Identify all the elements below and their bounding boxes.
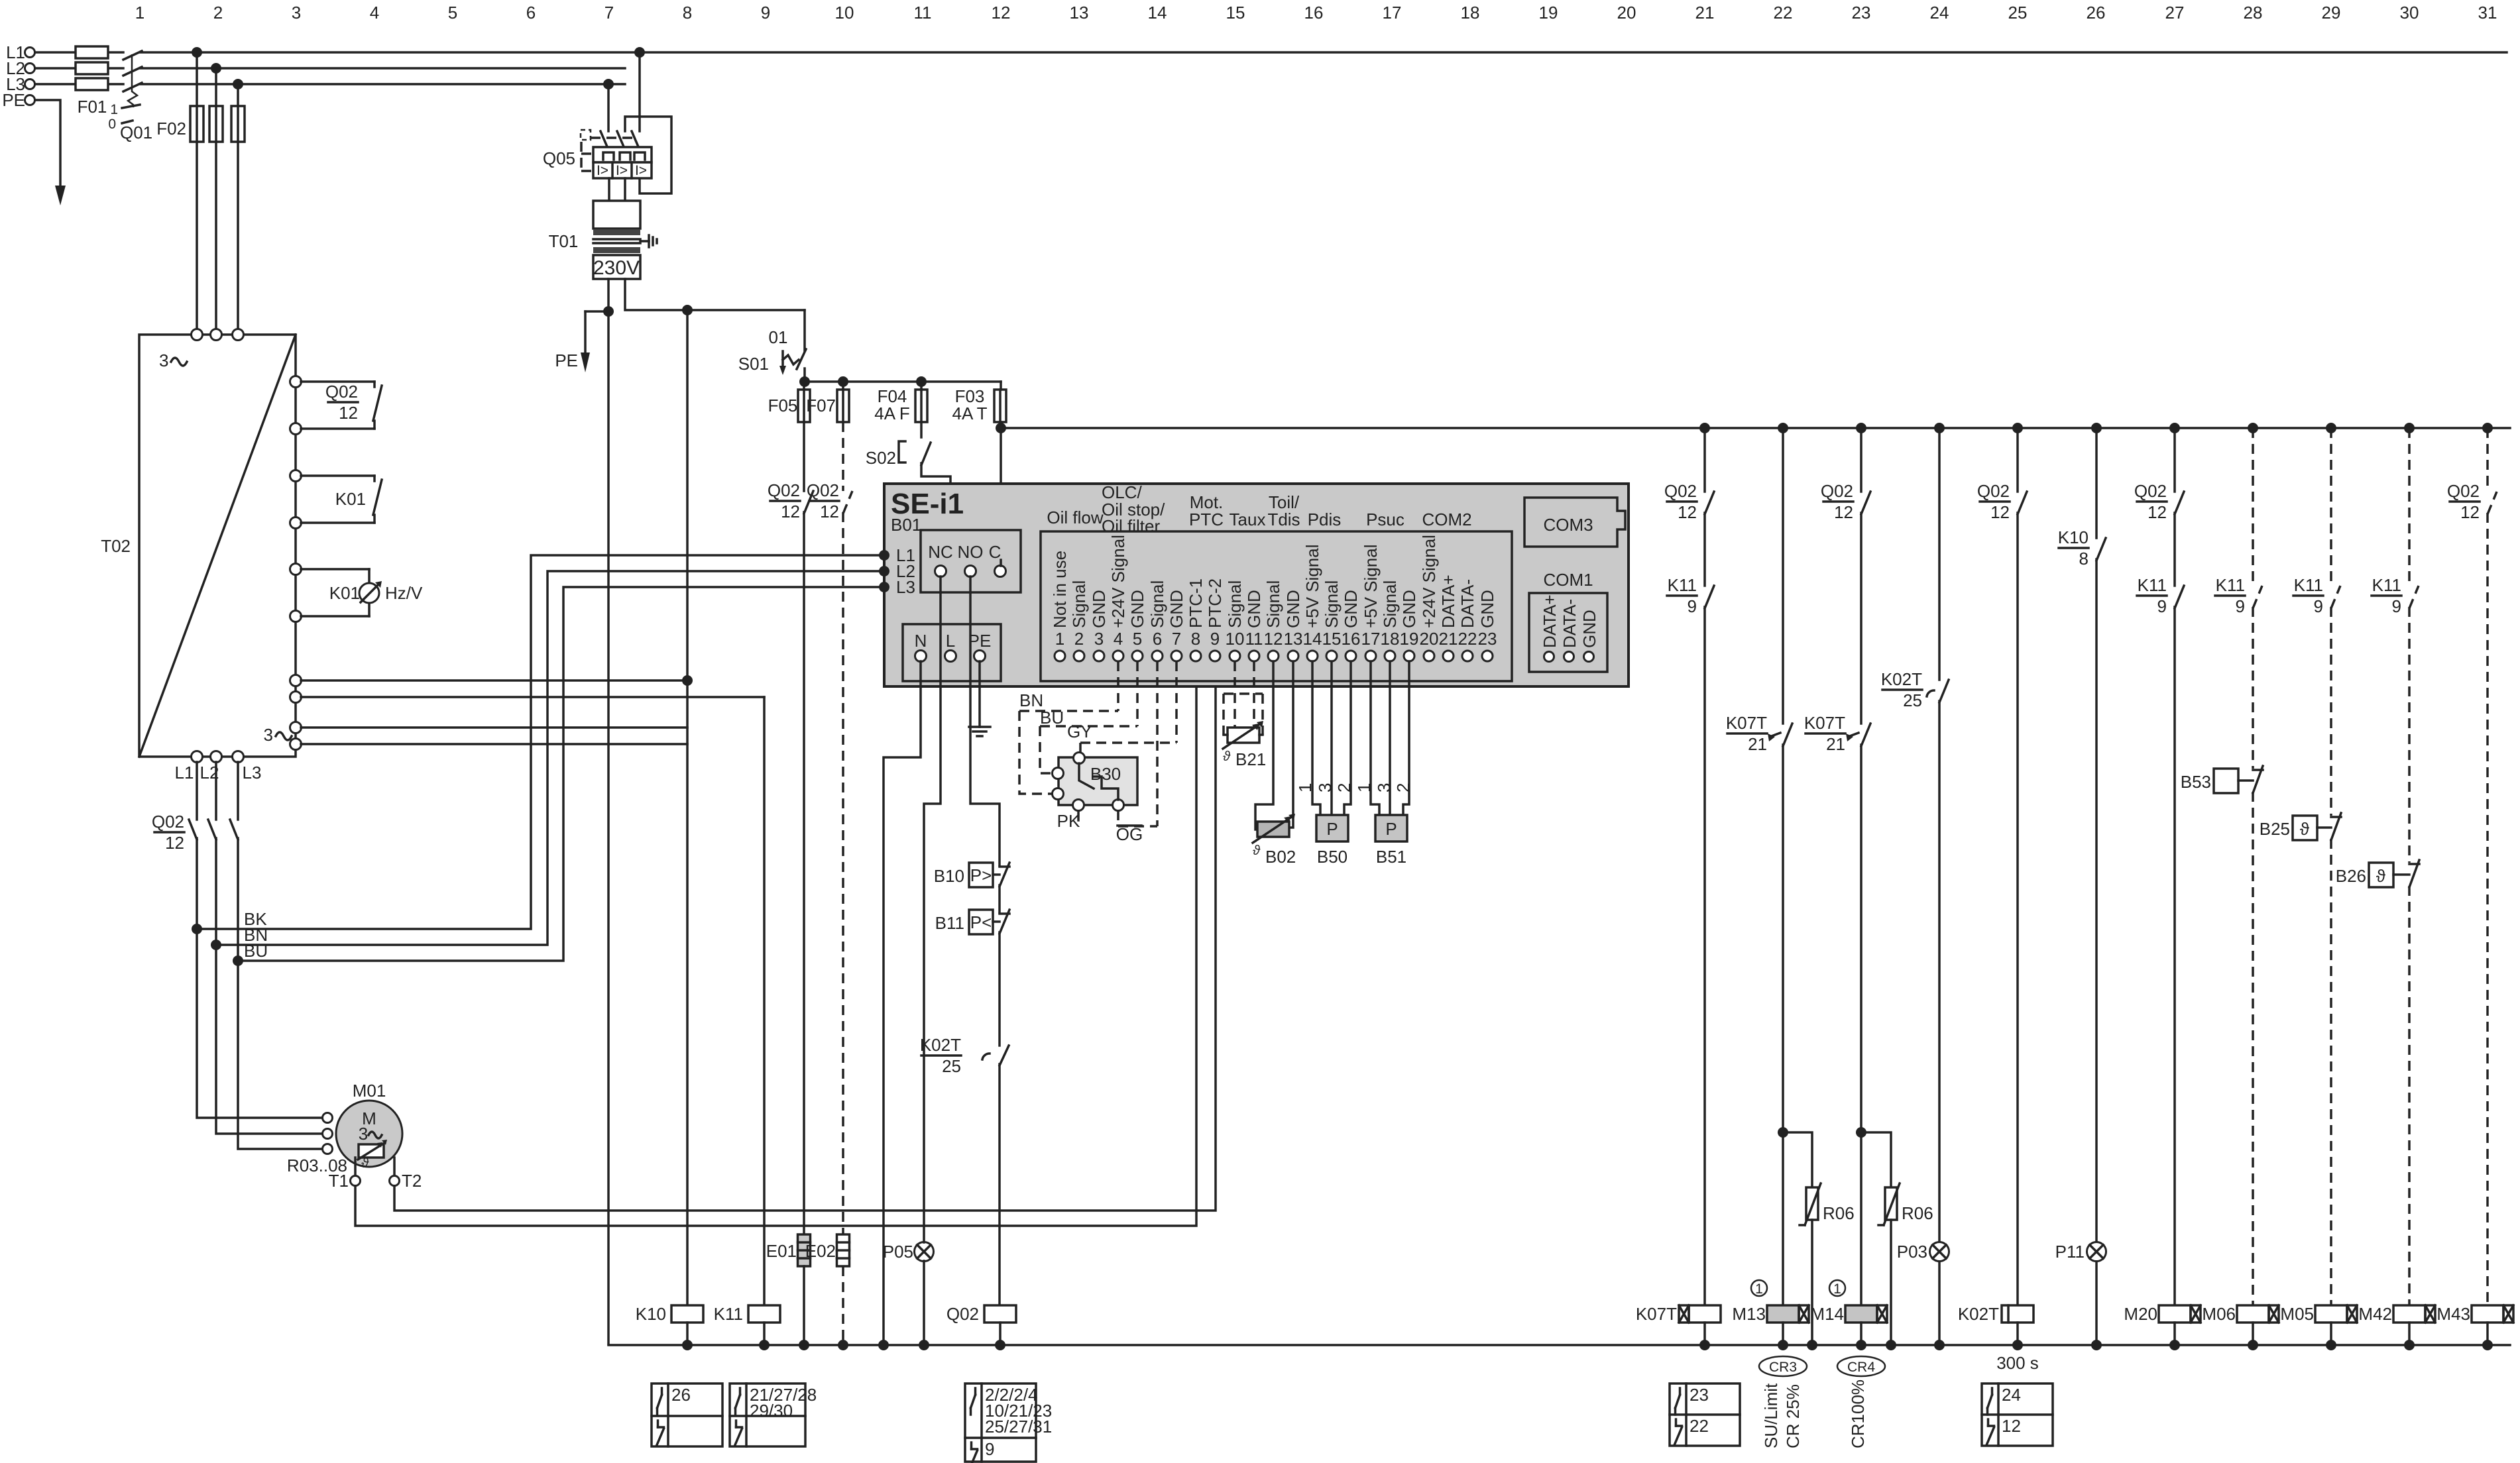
svg-text:S02: S02 <box>866 448 896 468</box>
svg-text:ϑ: ϑ <box>2376 866 2386 886</box>
svg-text:Oil filter: Oil filter <box>1102 516 1160 536</box>
svg-text:M13: M13 <box>1732 1304 1766 1324</box>
svg-text:Oil flow: Oil flow <box>1047 508 1103 527</box>
svg-text:31: 31 <box>2478 3 2497 23</box>
svg-text:DATA+: DATA+ <box>1438 574 1458 628</box>
svg-text:K02T: K02T <box>1881 669 1922 689</box>
svg-text:20: 20 <box>1420 629 1439 649</box>
svg-text:P: P <box>1326 819 1338 839</box>
svg-text:K02T: K02T <box>1958 1304 1999 1324</box>
svg-text:ϑ: ϑ <box>361 1156 369 1171</box>
svg-text:9: 9 <box>2236 596 2245 616</box>
svg-text:B26: B26 <box>2336 866 2366 886</box>
svg-text:P>: P> <box>970 865 992 885</box>
svg-text:24: 24 <box>1930 3 1949 23</box>
svg-text:20: 20 <box>1617 3 1636 23</box>
svg-text:12: 12 <box>2148 502 2167 522</box>
svg-text:GND: GND <box>1579 610 1599 648</box>
svg-text:Signal: Signal <box>1322 580 1342 628</box>
svg-text:K10: K10 <box>2058 527 2089 547</box>
svg-text:12: 12 <box>820 502 839 521</box>
svg-text:CR3: CR3 <box>1769 1360 1797 1375</box>
svg-text:CR4: CR4 <box>1847 1360 1875 1375</box>
svg-text:1: 1 <box>1354 783 1374 792</box>
svg-text:B01: B01 <box>891 515 921 535</box>
svg-text:Q02: Q02 <box>1664 481 1697 501</box>
svg-text:12: 12 <box>339 403 358 423</box>
svg-text:4: 4 <box>1114 629 1123 649</box>
svg-text:Q02: Q02 <box>2447 481 2480 501</box>
svg-text:L: L <box>946 631 955 651</box>
svg-text:S01: S01 <box>738 354 769 374</box>
svg-text:I>: I> <box>635 163 647 178</box>
svg-text:COM2: COM2 <box>1422 510 1471 529</box>
svg-text:K02T: K02T <box>920 1035 961 1055</box>
svg-text:9: 9 <box>1210 629 1220 649</box>
svg-text:3: 3 <box>159 351 168 370</box>
svg-text:5: 5 <box>1133 629 1142 649</box>
svg-text:B10: B10 <box>934 866 964 886</box>
svg-text:26: 26 <box>671 1385 691 1405</box>
svg-text:B21: B21 <box>1235 749 1266 769</box>
svg-text:Q02: Q02 <box>2134 481 2167 501</box>
svg-text:13: 13 <box>1070 3 1089 23</box>
svg-text:K01: K01 <box>335 489 366 509</box>
svg-text:B30: B30 <box>1090 764 1121 784</box>
svg-text:PE: PE <box>2 90 25 110</box>
svg-text:9: 9 <box>1688 596 1697 616</box>
svg-text:2: 2 <box>1393 783 1413 792</box>
svg-text:23: 23 <box>1478 629 1497 649</box>
svg-text:3: 3 <box>1374 783 1394 792</box>
svg-text:K07T: K07T <box>1636 1304 1677 1324</box>
svg-text:18: 18 <box>1461 3 1480 23</box>
svg-text:COM3: COM3 <box>1543 515 1593 535</box>
svg-text:+5V Signal: +5V Signal <box>1302 545 1322 628</box>
svg-text:PTC: PTC <box>1189 510 1224 529</box>
svg-text:Taux: Taux <box>1230 510 1266 529</box>
svg-text:9: 9 <box>2392 596 2401 616</box>
svg-text:0: 0 <box>108 117 116 132</box>
svg-text:M20: M20 <box>2124 1304 2157 1324</box>
svg-text:Signal: Signal <box>1069 580 1089 628</box>
svg-text:16: 16 <box>1342 629 1361 649</box>
svg-text:16: 16 <box>1304 3 1324 23</box>
svg-text:GY: GY <box>1067 722 1092 741</box>
svg-text:Q02: Q02 <box>946 1304 979 1324</box>
svg-text:Q02: Q02 <box>1821 481 1853 501</box>
svg-text:F01: F01 <box>78 97 107 117</box>
svg-text:P<: P< <box>970 912 992 932</box>
svg-text:29/30: 29/30 <box>750 1401 793 1421</box>
svg-text:+5V Signal: +5V Signal <box>1361 545 1381 628</box>
svg-text:K11: K11 <box>2372 575 2401 595</box>
svg-text:+24V Signal: +24V Signal <box>1108 535 1128 628</box>
svg-text:I>: I> <box>616 163 628 178</box>
svg-text:1: 1 <box>1755 1281 1763 1297</box>
svg-text:B11: B11 <box>935 913 964 933</box>
svg-text:2: 2 <box>1074 629 1084 649</box>
svg-text:T02: T02 <box>101 536 131 556</box>
svg-text:12: 12 <box>2460 502 2480 522</box>
svg-text:8: 8 <box>683 3 692 23</box>
svg-text:F02: F02 <box>156 119 186 138</box>
svg-text:Q02: Q02 <box>768 480 800 500</box>
svg-text:11: 11 <box>914 3 932 23</box>
svg-text:25: 25 <box>942 1056 961 1076</box>
svg-text:3: 3 <box>264 725 273 745</box>
svg-text:26: 26 <box>2087 3 2106 23</box>
svg-text:Not in use: Not in use <box>1050 551 1070 628</box>
svg-text:2: 2 <box>213 3 223 23</box>
svg-text:1: 1 <box>1295 783 1315 792</box>
svg-text:14: 14 <box>1148 3 1167 23</box>
svg-text:8: 8 <box>2079 549 2089 569</box>
svg-text:22: 22 <box>1774 3 1793 23</box>
svg-text:6: 6 <box>526 3 536 23</box>
svg-text:F05: F05 <box>768 396 798 415</box>
svg-text:Pdis: Pdis <box>1308 510 1342 529</box>
svg-text:ϑ: ϑ <box>2300 819 2310 839</box>
svg-text:K11: K11 <box>2216 575 2245 595</box>
svg-text:300 s: 300 s <box>1996 1353 2039 1373</box>
svg-text:PE: PE <box>968 631 992 651</box>
svg-text:M01: M01 <box>353 1081 386 1101</box>
svg-text:DATA-: DATA- <box>1560 599 1579 648</box>
svg-text:B50: B50 <box>1317 847 1347 867</box>
svg-text:PE: PE <box>555 351 578 370</box>
svg-text:GND: GND <box>1167 590 1186 628</box>
svg-text:PTC-2: PTC-2 <box>1205 578 1225 628</box>
svg-text:3: 3 <box>359 1124 368 1144</box>
svg-text:COM1: COM1 <box>1543 570 1593 590</box>
svg-text:P: P <box>1385 819 1397 839</box>
svg-text:M42: M42 <box>2358 1304 2392 1324</box>
svg-text:L3: L3 <box>243 763 262 783</box>
svg-text:GND: GND <box>1341 590 1361 628</box>
svg-text:12: 12 <box>992 3 1011 23</box>
svg-text:DATA-: DATA- <box>1458 579 1477 628</box>
svg-text:T01: T01 <box>549 231 579 251</box>
svg-text:C: C <box>989 542 1002 562</box>
svg-text:22: 22 <box>1458 629 1477 649</box>
svg-text:8: 8 <box>1191 629 1200 649</box>
svg-text:K07T: K07T <box>1804 713 1845 733</box>
svg-text:7: 7 <box>1172 629 1181 649</box>
svg-text:230V: 230V <box>593 257 640 279</box>
svg-text:12: 12 <box>165 833 184 853</box>
svg-text:12: 12 <box>781 502 800 521</box>
svg-text:25/27/31: 25/27/31 <box>985 1417 1052 1436</box>
svg-text:1: 1 <box>110 102 118 117</box>
svg-text:B02: B02 <box>1265 847 1296 867</box>
svg-text:L3: L3 <box>896 577 915 597</box>
svg-text:R06: R06 <box>1823 1203 1855 1223</box>
svg-text:21: 21 <box>1439 629 1458 649</box>
svg-text:22: 22 <box>1690 1416 1709 1436</box>
svg-text:N: N <box>915 631 927 651</box>
svg-text:M14: M14 <box>1810 1304 1844 1324</box>
svg-text:12: 12 <box>2002 1416 2021 1436</box>
svg-text:21: 21 <box>1695 3 1715 23</box>
svg-text:K07T: K07T <box>1726 713 1767 733</box>
svg-text:Hz/V: Hz/V <box>385 583 423 603</box>
svg-text:15: 15 <box>1226 3 1245 23</box>
svg-text:Q01: Q01 <box>120 123 152 142</box>
svg-text:K11: K11 <box>2138 575 2167 595</box>
svg-text:GND: GND <box>1477 590 1497 628</box>
svg-text:12: 12 <box>1678 502 1697 522</box>
svg-text:21: 21 <box>1826 734 1845 754</box>
svg-text:K11: K11 <box>1668 575 1697 595</box>
svg-text:5: 5 <box>448 3 457 23</box>
svg-text:NC: NC <box>928 542 953 562</box>
svg-text:NO: NO <box>958 542 984 562</box>
svg-text:7: 7 <box>604 3 614 23</box>
svg-text:R06: R06 <box>1902 1203 1933 1223</box>
svg-text:25: 25 <box>2008 3 2028 23</box>
svg-text:P03: P03 <box>1897 1242 1927 1262</box>
svg-text:3: 3 <box>1094 629 1104 649</box>
svg-text:12: 12 <box>1264 629 1283 649</box>
svg-text:1: 1 <box>135 3 144 23</box>
svg-text:27: 27 <box>2165 3 2185 23</box>
svg-text:4: 4 <box>370 3 379 23</box>
svg-text:Tdis: Tdis <box>1267 510 1300 529</box>
svg-text:17: 17 <box>1383 3 1402 23</box>
svg-text:9: 9 <box>761 3 770 23</box>
svg-text:I>: I> <box>597 163 608 178</box>
svg-text:21: 21 <box>1748 734 1767 754</box>
svg-text:GND: GND <box>1283 590 1303 628</box>
svg-text:1: 1 <box>1055 629 1064 649</box>
svg-text:CR 25%: CR 25% <box>1783 1384 1803 1448</box>
svg-text:Signal: Signal <box>1147 580 1167 628</box>
svg-text:10: 10 <box>1226 629 1245 649</box>
svg-text:K10: K10 <box>636 1304 666 1324</box>
svg-text:01: 01 <box>769 327 788 347</box>
svg-text:24: 24 <box>2002 1385 2021 1405</box>
svg-text:B25: B25 <box>2260 819 2290 839</box>
svg-text:1: 1 <box>1833 1281 1841 1297</box>
svg-text:10: 10 <box>835 3 854 23</box>
svg-text:E01: E01 <box>766 1241 797 1261</box>
svg-text:E02: E02 <box>805 1241 836 1261</box>
svg-text:M43: M43 <box>2436 1304 2470 1324</box>
svg-text:Q05: Q05 <box>543 148 575 168</box>
svg-text:B51: B51 <box>1376 847 1406 867</box>
svg-text:3: 3 <box>292 3 301 23</box>
svg-text:9: 9 <box>985 1439 994 1459</box>
svg-text:GND: GND <box>1399 590 1419 628</box>
svg-text:2: 2 <box>1334 783 1354 792</box>
svg-text:4A T: 4A T <box>952 404 987 423</box>
svg-text:Psuc: Psuc <box>1366 510 1404 529</box>
svg-text:+24V Signal: +24V Signal <box>1419 535 1439 628</box>
svg-text:ϑ: ϑ <box>1223 749 1231 764</box>
svg-text:4A F: 4A F <box>874 404 909 423</box>
svg-text:Signal: Signal <box>1225 580 1245 628</box>
svg-text:F07: F07 <box>806 396 836 415</box>
svg-text:BU: BU <box>1040 708 1064 728</box>
svg-text:23: 23 <box>1852 3 1871 23</box>
svg-text:SU/Limit: SU/Limit <box>1761 1383 1781 1448</box>
svg-text:P11: P11 <box>2055 1242 2085 1262</box>
svg-text:9: 9 <box>2314 596 2323 616</box>
svg-text:CR100%: CR100% <box>1848 1380 1868 1448</box>
svg-text:15: 15 <box>1322 629 1342 649</box>
svg-text:3: 3 <box>1315 783 1335 792</box>
svg-text:9: 9 <box>2157 596 2167 616</box>
svg-text:Q02: Q02 <box>325 382 358 402</box>
svg-text:18: 18 <box>1381 629 1400 649</box>
svg-text:OG: OG <box>1116 824 1143 844</box>
svg-text:T2: T2 <box>402 1171 422 1191</box>
svg-text:PK: PK <box>1057 811 1080 831</box>
svg-text:M05: M05 <box>2280 1304 2314 1324</box>
svg-text:DATA+: DATA+ <box>1540 594 1560 648</box>
svg-text:Q02: Q02 <box>807 480 839 500</box>
svg-text:14: 14 <box>1303 629 1322 649</box>
svg-text:T1: T1 <box>329 1171 349 1191</box>
svg-text:Signal: Signal <box>1380 580 1400 628</box>
svg-text:6: 6 <box>1153 629 1162 649</box>
svg-text:K01: K01 <box>329 583 360 603</box>
svg-text:GND: GND <box>1089 590 1109 628</box>
svg-text:12: 12 <box>1990 502 2010 522</box>
svg-text:PTC-1: PTC-1 <box>1186 578 1206 628</box>
svg-text:L1: L1 <box>175 763 194 783</box>
svg-text:Q02: Q02 <box>152 812 184 832</box>
svg-text:Q02: Q02 <box>1977 481 2010 501</box>
svg-text:ϑ: ϑ <box>1253 843 1261 858</box>
svg-text:GND: GND <box>1244 590 1264 628</box>
svg-text:Signal: Signal <box>1263 580 1283 628</box>
svg-text:13: 13 <box>1284 629 1303 649</box>
svg-text:19: 19 <box>1539 3 1558 23</box>
svg-text:12: 12 <box>1834 502 1853 522</box>
svg-text:GND: GND <box>1127 590 1147 628</box>
svg-text:29: 29 <box>2322 3 2341 23</box>
svg-text:19: 19 <box>1400 629 1419 649</box>
svg-text:B53: B53 <box>2181 772 2211 792</box>
svg-text:M06: M06 <box>2202 1304 2236 1324</box>
svg-text:25: 25 <box>1903 690 1922 710</box>
svg-text:K11: K11 <box>714 1304 743 1324</box>
svg-text:23: 23 <box>1690 1385 1709 1405</box>
svg-text:28: 28 <box>2244 3 2263 23</box>
svg-text:17: 17 <box>1361 629 1381 649</box>
svg-text:K11: K11 <box>2294 575 2323 595</box>
svg-text:30: 30 <box>2400 3 2419 23</box>
svg-text:11: 11 <box>1245 629 1263 649</box>
svg-text:P05: P05 <box>883 1242 913 1262</box>
